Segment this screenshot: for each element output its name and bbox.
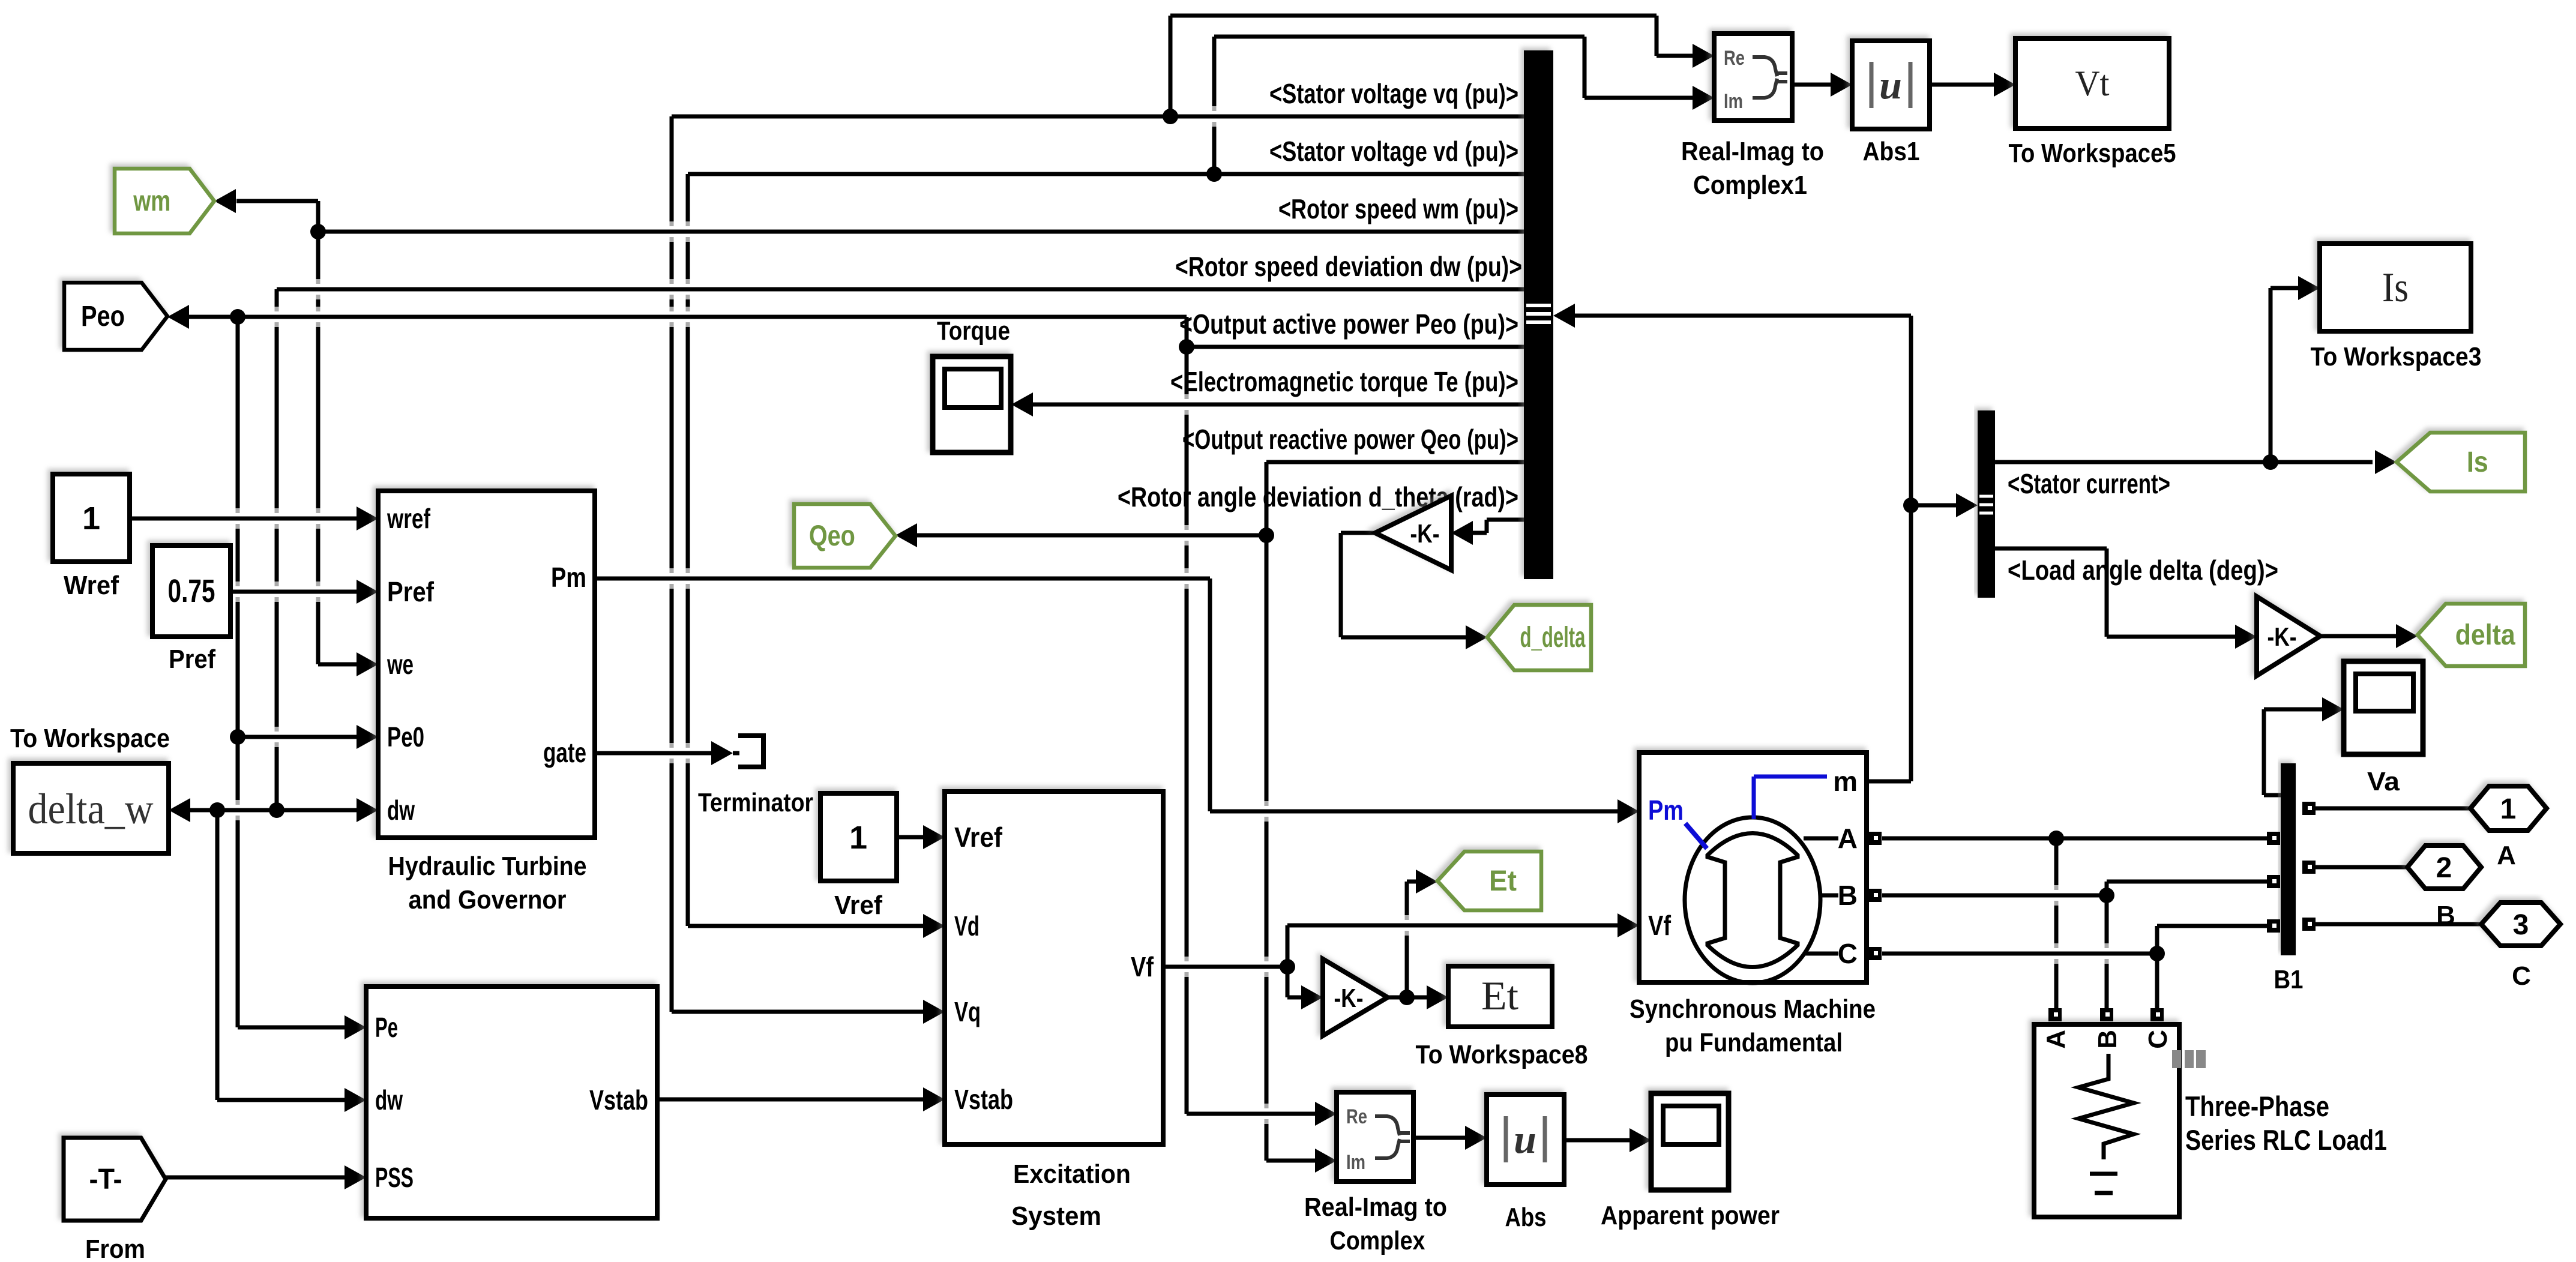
svg-text:<Stator current>: <Stator current>	[2008, 468, 2170, 499]
wire wm to Goto wm	[214, 189, 318, 232]
svg-text:To Workspace5: To Workspace5	[2009, 139, 2176, 168]
outport 2	[2407, 846, 2481, 889]
label Wref	[64, 571, 119, 600]
svg-text:Terminator: Terminator	[698, 788, 813, 817]
label Rotor speed deviation dw	[1175, 251, 1522, 282]
wire m bus from Synchronous Machine to Bus Selector	[1553, 304, 1911, 781]
wire vd from Bus Selector to Vd of Excitation System	[688, 174, 1524, 938]
block Synchronous Machine pu Fundamental	[1639, 753, 1867, 983]
svg-text:Pe: Pe	[375, 1012, 398, 1043]
svg-text:B1: B1	[2274, 965, 2304, 994]
svg-text:-K-: -K-	[2268, 622, 2297, 652]
wire Gain to Goto delta	[2320, 624, 2418, 648]
svg-text:Series RLC Load1: Series RLC Load1	[2185, 1124, 2387, 1156]
gain3 -K- delta	[2257, 596, 2320, 676]
svg-text:Qeo: Qeo	[809, 520, 855, 552]
wire phase B to RLC load	[2105, 895, 2109, 1008]
wire Peo to Goto Peo	[167, 305, 1187, 347]
port pad B1 out 3	[2302, 918, 2316, 931]
svg-text:A: A	[2041, 1030, 2071, 1049]
label Load angle delta	[2008, 554, 2278, 586]
gain -K- rad2deg	[1375, 496, 1451, 570]
wire vq from Bus Selector to Vq of Excitation System	[672, 116, 1524, 1024]
wire Vstab from PSS to Excitation System	[657, 1087, 945, 1111]
wire Pm from Hydraulic Turbine to Pm of Synchronous Machine	[595, 578, 1639, 823]
node Peo junction left	[230, 309, 245, 325]
svg-text:Wref: Wref	[64, 571, 119, 600]
svg-text:From: From	[85, 1234, 145, 1262]
svg-text:<Stator voltage vd (pu)>: <Stator voltage vd (pu)>	[1269, 136, 1518, 167]
wire Pref from Pref to Hydraulic Turbine	[230, 580, 378, 604]
block Real-Imag to Complex1	[1714, 34, 1792, 121]
wire B1 output 2	[2315, 865, 2407, 870]
svg-text:<Electromagnetic torque Te (p: <Electromagnetic torque Te (pu)>	[1170, 366, 1518, 397]
svg-text:delta_w: delta_w	[28, 785, 154, 833]
node vq junction	[1163, 109, 1178, 124]
block To Workspace8 Et	[1448, 966, 1552, 1027]
wire Peo to Pe0 of Hydraulic Turbine	[238, 725, 378, 749]
wire Stator current to Goto Is	[1995, 450, 2397, 474]
outport 1	[2470, 786, 2547, 831]
wire phase A to RLC load	[2054, 838, 2059, 1008]
wire phase C to RLC load	[2155, 954, 2159, 1008]
label A	[2497, 841, 2516, 870]
svg-text:-T-: -T-	[89, 1164, 122, 1195]
svg-text:Re: Re	[1346, 1105, 1367, 1128]
goto tag Peo	[64, 283, 167, 350]
label Va	[2367, 767, 2400, 796]
goto tag delta	[2418, 604, 2525, 666]
svg-text:pu Fundamental: pu Fundamental	[1665, 1028, 1843, 1057]
svg-text:Vf: Vf	[1131, 951, 1154, 982]
svg-text:Pm: Pm	[1648, 795, 1684, 826]
port pad B1 out 1	[2302, 802, 2316, 815]
bus selector1	[1978, 410, 1995, 598]
block Abs	[1487, 1095, 1564, 1185]
label Abs1	[1863, 137, 1920, 166]
label Real-Imag to Complex	[1304, 1192, 1447, 1255]
svg-text:Synchronous Machine: Synchronous Machine	[1630, 994, 1876, 1024]
svg-text:A: A	[2497, 841, 2516, 870]
svg-text:Im: Im	[1724, 90, 1743, 113]
wire dw to dw of PSS	[217, 810, 366, 1112]
svg-text:Pref: Pref	[169, 645, 215, 674]
wire Abs to Apparent power scope	[1564, 1128, 1651, 1152]
port pad RLC C	[2150, 1008, 2164, 1021]
label Output reactive power Qeo	[1182, 424, 1518, 455]
svg-text:Vt: Vt	[2075, 64, 2110, 103]
wire vq to Re of Real-Imag to Complex1	[1170, 16, 1714, 116]
wire Real-Imag to Complex1 to Abs1	[1792, 73, 1852, 97]
node dw junction left	[209, 802, 225, 818]
label B1	[2274, 965, 2304, 994]
wire gate to Terminator	[595, 741, 739, 765]
svg-text:System: System	[1011, 1201, 1101, 1231]
label Three-Phase Series RLC Load1	[2185, 1090, 2387, 1156]
goto tag Qeo	[794, 504, 895, 568]
port pad machine C	[1868, 947, 1882, 960]
port pad B1 in B	[2267, 875, 2280, 888]
wire Peo to Pe of PSS	[238, 317, 366, 1039]
label Real-Imag to Complex1	[1681, 137, 1824, 200]
svg-text:Vstab: Vstab	[589, 1084, 648, 1116]
svg-text:Vref: Vref	[954, 822, 1003, 853]
wire phase C from Synchronous Machine	[1882, 952, 2157, 956]
svg-text:m: m	[1833, 766, 1858, 797]
label Terminator	[698, 788, 813, 817]
wire Vf from Excitation System	[1163, 965, 1287, 969]
scope Va	[2344, 661, 2423, 754]
svg-text:Vq: Vq	[954, 996, 981, 1027]
goto tag d_delta	[1487, 605, 1591, 670]
terminator	[738, 736, 763, 767]
constant Vref value 1	[820, 793, 897, 881]
block To Workspace3 Is	[2320, 244, 2471, 331]
svg-text:we: we	[387, 649, 414, 680]
wire Vref constant to Excitation System	[897, 825, 945, 849]
label From	[85, 1234, 145, 1262]
svg-text:<Load angle delta (deg)>: <Load angle delta (deg)>	[2008, 554, 2278, 586]
outport 3	[2481, 903, 2560, 946]
svg-text:B: B	[1838, 880, 1858, 911]
svg-text:Et: Et	[1489, 865, 1517, 897]
block To Workspace5 Vt	[2015, 38, 2169, 128]
svg-text:A: A	[1838, 823, 1858, 854]
wire Stator current to To Workspace3 Is	[2271, 276, 2320, 462]
node phase A junction	[2048, 831, 2064, 846]
label C	[2512, 961, 2531, 991]
wire B1 output 3	[2315, 922, 2481, 927]
label Hydraulic Turbine and Governor	[388, 852, 587, 915]
label Pref	[169, 645, 215, 674]
wire B1 output 1	[2315, 807, 2470, 811]
svg-text:B: B	[2436, 901, 2455, 930]
svg-text:dw: dw	[375, 1084, 403, 1116]
wire Abs1 to To Workspace5 Vt	[1930, 73, 2015, 97]
svg-text:-K-: -K-	[1334, 984, 1364, 1013]
svg-text:u: u	[1514, 1116, 1536, 1162]
svg-text:Re: Re	[1724, 47, 1745, 70]
node vd junction	[1206, 166, 1222, 182]
wire Peo from Bus Selector	[1187, 345, 1524, 349]
svg-text:To Workspace3: To Workspace3	[2311, 342, 2482, 371]
node m bus junction	[1903, 497, 1919, 513]
svg-text:Is: Is	[2467, 446, 2488, 478]
node Pe0 junction	[230, 729, 245, 745]
svg-text:Et: Et	[1481, 973, 1518, 1018]
wire wref from Wref to Hydraulic Turbine	[130, 506, 378, 530]
label Stator current	[2008, 468, 2170, 499]
node Stator current junction	[2263, 454, 2278, 470]
wire From -T- to PSS input	[166, 1165, 366, 1189]
svg-text:Pm: Pm	[551, 562, 586, 593]
svg-text:<Rotor speed wm (pu)>: <Rotor speed wm (pu)>	[1278, 193, 1518, 224]
label Torque	[937, 316, 1010, 346]
svg-text:1: 1	[2500, 793, 2517, 825]
wire Peo to Re of Real-Imag to Complex	[1187, 347, 1337, 1126]
wire to To Workspace8 Et	[1407, 985, 1448, 1009]
label To Workspace8	[1416, 1040, 1588, 1069]
svg-text:gate: gate	[543, 737, 586, 768]
svg-text:wref: wref	[387, 503, 430, 534]
label Vref	[834, 891, 882, 920]
svg-text:Is: Is	[2382, 265, 2409, 311]
svg-text:1: 1	[849, 820, 867, 856]
svg-text:C: C	[2512, 961, 2531, 991]
svg-text:To Workspace: To Workspace	[10, 724, 170, 753]
label To Workspace5	[2009, 139, 2176, 168]
port pad B1 out 2	[2302, 861, 2316, 874]
wire Te to Torque scope	[1011, 392, 1524, 416]
wire phase A from Synchronous Machine to B1	[1882, 837, 2267, 841]
port pad RLC A	[2048, 1008, 2062, 1021]
wire Gain1 to Goto d_delta	[1341, 533, 1487, 649]
wire vd to Im of Real-Imag to Complex1	[1214, 37, 1714, 174]
wire Qeo to Im of Real-Imag to Complex	[1266, 535, 1337, 1173]
label Apparent power	[1601, 1201, 1780, 1230]
svg-text:2: 2	[2436, 852, 2452, 884]
constant Wref value 1	[53, 474, 130, 562]
goto tag Et	[1437, 852, 1541, 910]
goto tag wm	[115, 169, 214, 233]
label To Workspace3	[2311, 342, 2482, 371]
wire Real-Imag to Complex to Abs	[1413, 1126, 1487, 1150]
block Real-Imag to Complex	[1337, 1092, 1413, 1182]
label Stator voltage vd	[1269, 136, 1518, 167]
port pad B1 in C	[2267, 919, 2280, 933]
port pad machine A	[1868, 832, 1882, 845]
label Rotor speed wm	[1278, 193, 1518, 224]
label Output active power Peo	[1179, 308, 1518, 340]
label Synchronous Machine pu Fundamental	[1630, 994, 1876, 1057]
svg-text:wm: wm	[133, 185, 170, 217]
svg-text:<Output reactive power Qeo (p: <Output reactive power Qeo (pu)>	[1182, 424, 1518, 455]
port pad machine B	[1868, 889, 1882, 902]
svg-text:Pe0: Pe0	[387, 721, 424, 753]
scope Torque	[933, 356, 1011, 452]
wire phase B to B1	[2107, 882, 2267, 895]
wire wm to we of Hydraulic Turbine	[318, 232, 378, 676]
svg-text:3: 3	[2513, 909, 2529, 941]
block PSS	[366, 987, 657, 1218]
label To Workspace	[10, 724, 170, 753]
svg-text:Three-Phase: Three-Phase	[2185, 1090, 2329, 1122]
svg-text:Hydraulic Turbine: Hydraulic Turbine	[388, 852, 587, 881]
node dw junction right	[269, 802, 284, 818]
svg-text:Peo: Peo	[81, 301, 125, 332]
svg-text:Real-Imag to: Real-Imag to	[1304, 1192, 1447, 1222]
wire Load angle to Gain	[1995, 548, 2257, 649]
svg-text:To Workspace8: To Workspace8	[1416, 1040, 1588, 1069]
svg-text:<Stator voltage vq (pu)>: <Stator voltage vq (pu)>	[1269, 78, 1518, 109]
node wm junction	[310, 224, 326, 239]
svg-text:0.75: 0.75	[168, 573, 215, 609]
svg-text:Vf: Vf	[1648, 910, 1672, 941]
label Electromagnetic torque Te	[1170, 366, 1518, 397]
wire Vf to Vf of Synchronous Machine	[1287, 913, 1639, 967]
svg-text:Complex: Complex	[1330, 1226, 1425, 1255]
label B	[2436, 901, 2455, 930]
svg-text:PSS: PSS	[375, 1162, 414, 1193]
scope Apparent power	[1651, 1093, 1729, 1190]
wire phase B from Synchronous Machine	[1882, 894, 2107, 898]
block Abs1	[1852, 41, 1930, 129]
svg-text:Real-Imag to: Real-Imag to	[1681, 137, 1824, 166]
node phase B junction	[2099, 888, 2114, 903]
wire d_theta to Gain1	[1451, 520, 1524, 545]
block Excitation System	[945, 792, 1163, 1144]
goto tag Is	[2397, 433, 2525, 491]
gain2 -K- Et	[1323, 959, 1388, 1036]
svg-text:Apparent power: Apparent power	[1601, 1201, 1780, 1230]
svg-text:Abs1: Abs1	[1863, 137, 1920, 166]
svg-text:Va: Va	[2367, 767, 2400, 796]
svg-text:d_delta: d_delta	[1520, 622, 1585, 654]
wire dw to dw of Hydraulic Turbine	[277, 798, 378, 822]
port pad B1 in A	[2267, 832, 2280, 845]
svg-text:<Output active power Peo (pu: <Output active power Peo (pu)>	[1179, 308, 1518, 340]
svg-text:delta: delta	[2455, 619, 2515, 651]
svg-text:Pref: Pref	[387, 576, 435, 607]
wire m bus to Bus Selector1	[1911, 493, 1978, 517]
svg-text:Torque: Torque	[937, 316, 1010, 346]
node Peo junction at bus	[1179, 339, 1194, 355]
wire Qeo to Goto Qeo	[895, 523, 1266, 547]
wire Vf to Gain2	[1287, 967, 1323, 1009]
wire to Goto Et	[1407, 870, 1437, 997]
constant Pref value 0.75	[152, 545, 230, 637]
svg-text:Excitation: Excitation	[1013, 1159, 1131, 1189]
svg-text:and Governor: and Governor	[409, 885, 567, 915]
port pad RLC B	[2100, 1008, 2113, 1021]
label Abs	[1505, 1203, 1547, 1232]
grey connector Three-Phase load	[2172, 1050, 2206, 1068]
bus selector	[1524, 50, 1553, 579]
wire B1 tap to Va scope	[2264, 697, 2344, 795]
wire dw to To Workspace delta_w	[169, 798, 277, 822]
label Stator voltage vq	[1269, 78, 1518, 109]
from tag -T-	[64, 1138, 166, 1221]
svg-text:1: 1	[82, 500, 100, 536]
wire Qeo from Bus Selector	[1266, 462, 1524, 535]
block Hydraulic Turbine and Governor	[378, 491, 595, 838]
node Et junction	[1399, 990, 1415, 1005]
svg-text:Complex1: Complex1	[1693, 170, 1807, 200]
svg-text:<Rotor angle deviation d_thet: <Rotor angle deviation d_theta (rad)>	[1118, 481, 1518, 512]
block To Workspace delta_w	[13, 763, 169, 853]
wire phase C to B1	[2157, 926, 2267, 954]
svg-text:Abs: Abs	[1505, 1203, 1547, 1232]
svg-text:Vd: Vd	[954, 910, 980, 942]
node phase C junction	[2149, 946, 2165, 961]
block Three-Phase Series RLC Load1	[2034, 1024, 2179, 1217]
svg-text:C: C	[1838, 938, 1858, 969]
svg-text:dw: dw	[387, 795, 415, 826]
svg-text:<Rotor speed deviation dw (pu: <Rotor speed deviation dw (pu)>	[1175, 251, 1522, 282]
svg-text:-K-: -K-	[1410, 519, 1440, 548]
bus B1	[2281, 763, 2296, 955]
svg-text:Vstab: Vstab	[954, 1084, 1013, 1115]
node Vf junction	[1280, 959, 1295, 975]
wire wm from Bus Selector	[318, 230, 1524, 234]
label Rotor angle deviation d_theta	[1118, 481, 1518, 512]
svg-text:Vref: Vref	[834, 891, 882, 920]
wire Gain2 output	[1388, 996, 1407, 1000]
svg-text:B: B	[2093, 1030, 2122, 1049]
svg-text:Im: Im	[1346, 1151, 1365, 1174]
svg-text:u: u	[1879, 62, 1902, 107]
node Qeo junction	[1259, 527, 1274, 543]
wire dw from Bus Selector	[277, 289, 1524, 810]
svg-text:C: C	[2143, 1030, 2173, 1049]
label Excitation System	[1011, 1159, 1131, 1231]
